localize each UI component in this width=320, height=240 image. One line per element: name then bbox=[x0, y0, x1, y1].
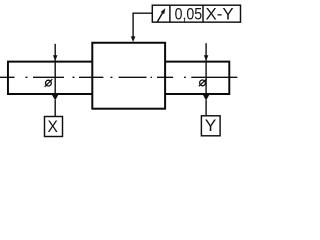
datum X triangle on journal bottom bbox=[52, 95, 58, 101]
svg-text:X-Y: X-Y bbox=[206, 6, 234, 24]
feature control frame cell divider 1 bbox=[169, 5, 171, 22]
feature control frame cell divider 2 bbox=[202, 5, 204, 22]
right measurement line (datum Y leader) bbox=[205, 43, 207, 95]
centerline (shaft axis, dash-dot) bbox=[0, 76, 237, 78]
datum Y frame bbox=[201, 116, 220, 136]
right diameter symbol bbox=[199, 79, 207, 86]
center section (large cylinder) outline bbox=[92, 43, 165, 109]
right arrowhead onto right journal top bbox=[204, 55, 209, 61]
leader from datum Y triangle to frame bbox=[205, 100, 207, 116]
svg-text:Y: Y bbox=[205, 116, 217, 135]
left journal (small cylinder) outline bbox=[8, 62, 92, 94]
left diameter symbol bbox=[45, 79, 53, 87]
feature control frame outer box bbox=[152, 5, 240, 22]
right journal (small cylinder) outline bbox=[165, 62, 229, 94]
leader line from feature control frame bbox=[133, 13, 152, 37]
leader from datum X triangle to frame bbox=[54, 100, 56, 117]
svg-text:0,05: 0,05 bbox=[175, 6, 203, 24]
left arrowhead onto left journal top bbox=[53, 55, 58, 61]
datum Y triangle on journal bottom bbox=[203, 95, 209, 101]
left measurement line (datum X leader) bbox=[54, 44, 56, 95]
datum X frame bbox=[45, 117, 63, 137]
circular runout symbol (slanted arrow) in first cell bbox=[157, 8, 165, 22]
leader arrowhead onto large cylinder bbox=[131, 36, 136, 42]
svg-text:X: X bbox=[48, 117, 58, 136]
